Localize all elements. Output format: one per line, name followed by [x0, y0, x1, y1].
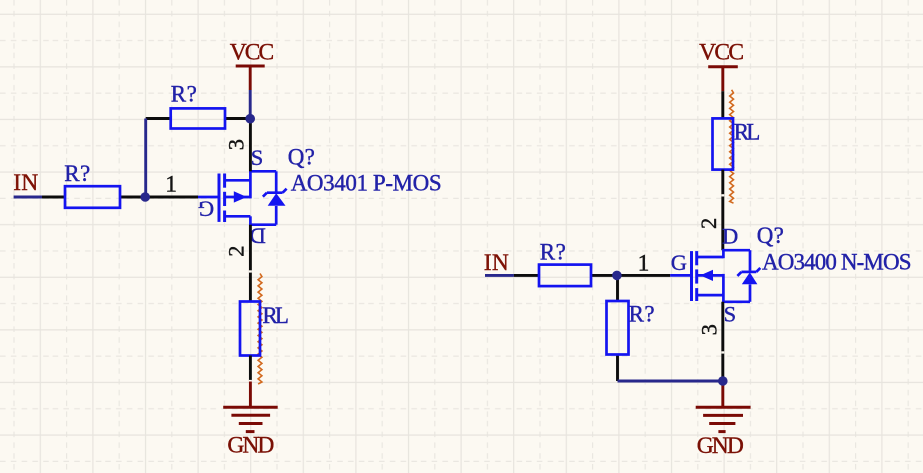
wire VCC to junction: [249, 90, 252, 119]
resistor RL (left): [240, 302, 260, 356]
svg-text:RL: RL: [734, 120, 761, 145]
svg-text:3: 3: [224, 139, 249, 150]
svg-text:S: S: [724, 302, 737, 327]
svg-text:D: D: [250, 223, 266, 248]
svg-text:GND: GND: [697, 433, 744, 459]
svg-text:R?: R?: [171, 81, 197, 106]
svg-text:G: G: [198, 197, 214, 222]
compile-mask squiggle (left RL): [258, 274, 262, 385]
wire IN stub (right): [485, 274, 514, 277]
svg-text:IN: IN: [13, 170, 38, 196]
wire left vertical (gate to R?): [144, 119, 147, 198]
svg-text:2: 2: [696, 218, 721, 229]
node junction S/GND (right): [718, 376, 728, 386]
node junction at VCC/R?/S (left): [245, 114, 255, 124]
resistor R4 pulldown (right): [607, 275, 629, 381]
transistor Q2 AO3400 N-MOS symbol: [670, 250, 760, 302]
node junction right gate: [612, 271, 622, 281]
svg-text:VCC: VCC: [230, 40, 275, 66]
resistor R2 series (IN): [42, 186, 145, 208]
svg-text:1: 1: [165, 171, 177, 197]
svg-text:Q?: Q?: [288, 145, 315, 170]
resistor RL (right): [713, 118, 734, 169]
svg-text:3: 3: [697, 324, 722, 335]
power port VCC (right): [708, 67, 738, 92]
wire gate node to MOSFET: [145, 196, 198, 199]
svg-text:AO3400 N-MOS: AO3400 N-MOS: [762, 250, 912, 275]
resistor R3 series (right): [514, 265, 617, 287]
svg-text:D: D: [722, 224, 738, 249]
pin VCC to RL (right): [721, 91, 724, 118]
compile-mask squiggle (right RL): [730, 90, 734, 203]
wire bottom (right): [618, 380, 723, 383]
power port GND (left): [223, 382, 278, 432]
svg-text:2: 2: [224, 246, 249, 257]
svg-text:VCC: VCC: [699, 39, 744, 65]
svg-text:AO3401 P-MOS: AO3401 P-MOS: [291, 171, 442, 196]
power port VCC (left): [236, 66, 265, 90]
pin 2 D lead down to RL: [249, 225, 252, 302]
power port GND (right): [696, 381, 751, 432]
svg-text:S: S: [251, 145, 264, 170]
svg-text:IN: IN: [484, 250, 509, 276]
svg-text:R?: R?: [540, 240, 566, 265]
wire gate node to MOSFET (right): [617, 274, 670, 277]
svg-text:GND: GND: [227, 433, 274, 459]
pin 3 S lead (right MOSFET): [721, 302, 724, 381]
svg-text:RL: RL: [262, 303, 289, 328]
svg-text:R?: R?: [64, 161, 90, 186]
svg-text:1: 1: [638, 251, 650, 277]
pin 3 S lead (left MOSFET): [249, 119, 252, 172]
pin RL bottom to drain: [721, 170, 724, 251]
body diode (right MOSFET): [741, 271, 756, 274]
wire IN stub: [14, 196, 42, 199]
body diode (left MOSFET): [267, 191, 283, 194]
node junction at gate node (left): [140, 192, 150, 202]
pin RL bottom: [249, 356, 252, 382]
resistor R1 top (feedback R?): [146, 108, 251, 128]
transistor Q1 AO3401 P-MOS symbol: [198, 171, 287, 224]
svg-text:Q?: Q?: [757, 223, 784, 248]
svg-text:G: G: [671, 250, 687, 275]
svg-text:R?: R?: [629, 302, 655, 327]
